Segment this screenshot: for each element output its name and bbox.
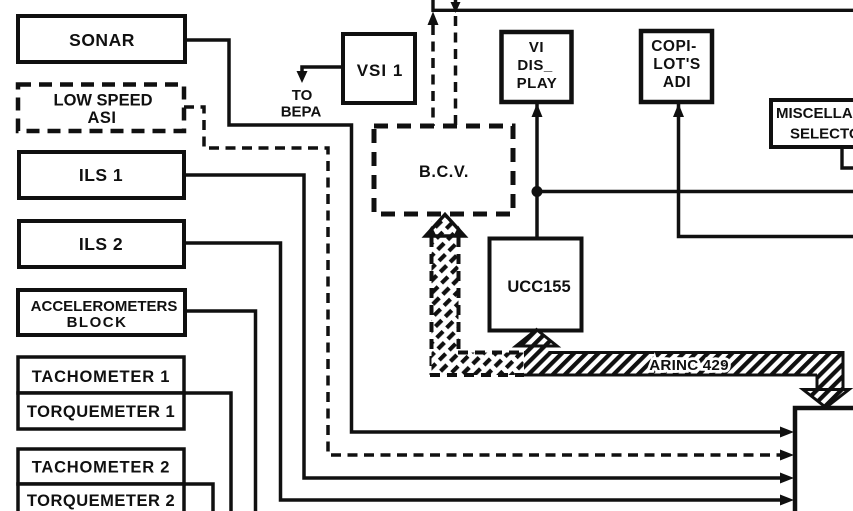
svg-text:TORQUEMETER 1: TORQUEMETER 1 (27, 403, 175, 421)
bus ARINC 429 horizontal (hatched) (524, 353, 843, 376)
svg-text:VSI 1: VSI 1 (357, 61, 404, 80)
arrow into COPILOT'S ADI (673, 104, 684, 118)
bus right end turning down (817, 351, 843, 391)
wire TACHOMETER/TORQUEMETER 2 down (184, 484, 213, 511)
block TACHOMETER 2 (18, 449, 184, 484)
wire UCC155 to VI DISPLAY (535, 104, 539, 238)
arrow up to top line from B.C.V. (428, 12, 439, 26)
block TORQUEMETER 1 (18, 393, 184, 429)
wire COPILOT'S ADI from right edge (679, 104, 853, 237)
svg-text:LOT'S: LOT'S (653, 56, 701, 73)
wire top line to B.C.V. (dashed, down) (454, 16, 458, 126)
block UCC155 (490, 239, 582, 331)
block ACCELEROMETERS BLOCK (18, 290, 185, 335)
block B.C.V. (374, 126, 513, 214)
arrow into computer from LOW SPEED ASI (780, 450, 794, 461)
block ILS 2 (19, 221, 184, 267)
label ARINC 429 (649, 357, 728, 374)
wire MISCELLANEOUS SELECT to right edge (842, 147, 853, 168)
svg-text:DIS_: DIS_ (517, 57, 553, 74)
svg-text:ASI: ASI (87, 109, 116, 127)
arrow into computer from SONAR (780, 427, 794, 438)
svg-text:COPI-: COPI- (651, 38, 697, 55)
block TORQUEMETER 2 (18, 484, 184, 511)
arrow into computer from ILS 2 (780, 495, 794, 506)
wire TACHOMETER/TORQUEMETER 1 down (184, 393, 231, 511)
wire ILS 2 to computer (184, 243, 781, 500)
arrow to BEPA (down) (297, 71, 308, 83)
svg-text:VI: VI (529, 39, 544, 56)
svg-text:ACCELEROMETERS: ACCELEROMETERS (31, 298, 178, 315)
wire top corner to right edge (433, 0, 853, 10)
block VI DISPLAY (502, 32, 572, 102)
label TO BEPA (281, 87, 322, 121)
bus arrow into UCC155 (up) (516, 330, 557, 355)
wire B.C.V. to top line (dashed, up) (431, 25, 435, 126)
svg-text:ADI: ADI (663, 74, 691, 91)
svg-text:MISCELLANEOUS: MISCELLANEOUS (776, 105, 853, 122)
svg-text:LOW SPEED: LOW SPEED (53, 92, 152, 110)
wire SONAR to computer (185, 40, 781, 432)
wire LOW SPEED ASI to computer (dashed) (184, 107, 780, 455)
junction node on VI DISPLAY wire (532, 186, 543, 197)
svg-text:TACHOMETER 2: TACHOMETER 2 (32, 459, 171, 477)
wire ILS 1 to computer (184, 175, 781, 478)
svg-text:ILS 2: ILS 2 (79, 234, 123, 254)
block VSI 1 (343, 34, 415, 103)
svg-text:B.C.V.: B.C.V. (419, 163, 469, 181)
svg-text:BEPA: BEPA (281, 104, 322, 121)
bus B.C.V. vertical (hatched, dashed outline) (432, 220, 459, 375)
bus arrow into computer (down) (803, 390, 849, 408)
wire VSI 1 to BEPA (302, 67, 343, 72)
svg-text:UCC155: UCC155 (507, 278, 570, 296)
arrow into VI DISPLAY (532, 104, 543, 118)
arrow into computer from ILS 1 (780, 473, 794, 484)
block COPILOT'S ADI (641, 31, 712, 102)
svg-text:BLOCK: BLOCK (67, 314, 128, 331)
block LOW SPEED ASI (18, 85, 184, 132)
block ILS 1 (19, 152, 184, 198)
svg-text:ILS 1: ILS 1 (79, 165, 123, 185)
bus horizontal dashed segment (430, 353, 524, 376)
svg-text:SELECTOR: SELECTOR (790, 126, 853, 143)
wire stub from top into junction (454, 0, 458, 3)
wire junction to right edge (537, 190, 853, 194)
svg-text:ARINC 429: ARINC 429 (649, 357, 728, 374)
svg-text:TACHOMETER 1: TACHOMETER 1 (32, 368, 171, 386)
block computer (bottom right, clipped) (795, 408, 853, 511)
bus arrow into B.C.V. (up) (425, 215, 466, 238)
svg-text:TO: TO (292, 87, 313, 104)
block SONAR (18, 16, 185, 62)
block TACHOMETER 1 (18, 357, 184, 393)
svg-text:PLAY: PLAY (517, 75, 558, 92)
svg-text:TORQUEMETER 2: TORQUEMETER 2 (27, 492, 175, 510)
svg-text:SONAR: SONAR (69, 30, 135, 50)
block MISCELLANEOUS SELECT (771, 100, 853, 147)
wire ACCELEROMETERS BLOCK down (185, 311, 256, 511)
arrow down at top junction (451, 2, 461, 13)
